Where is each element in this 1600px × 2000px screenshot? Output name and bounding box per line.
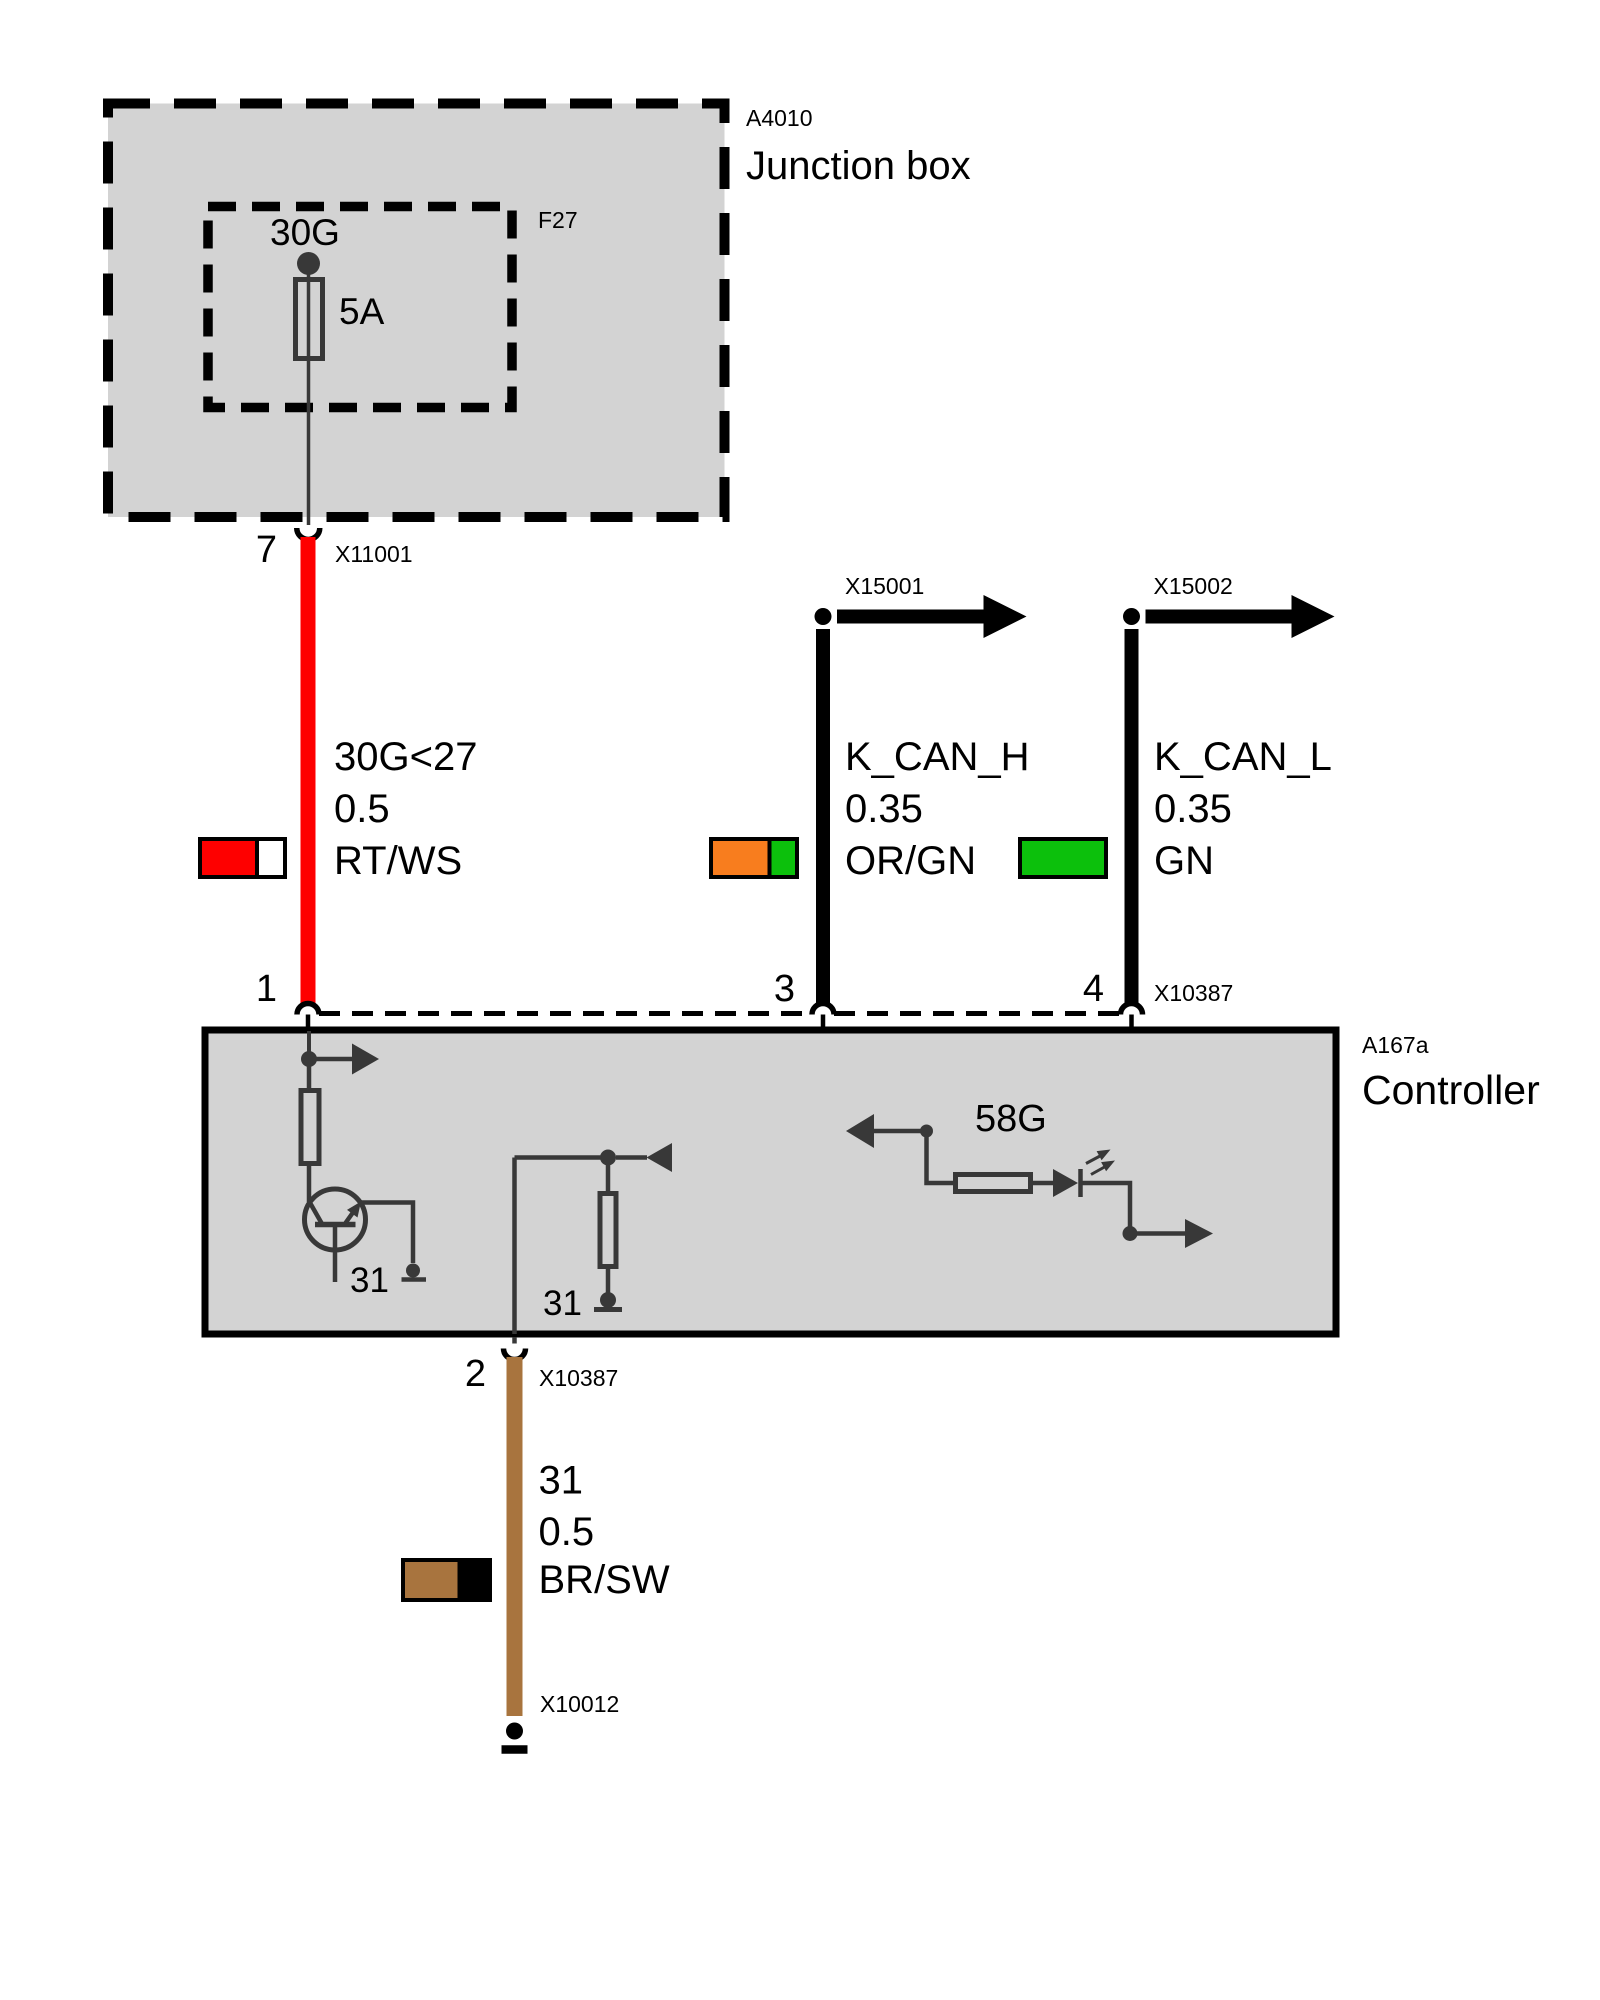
- svg-text:31: 31: [539, 1459, 584, 1503]
- ground X10012 dot: [506, 1723, 523, 1740]
- svg-text:5A: 5A: [339, 291, 385, 332]
- connector X10387 pin 4 socket: [1121, 1004, 1143, 1015]
- resistor R1: [301, 1091, 319, 1164]
- transistor Q1 base bar: [315, 1222, 356, 1228]
- connector X11001 pin 7 socket: [297, 528, 320, 540]
- svg-text:31: 31: [350, 1261, 389, 1300]
- svg-text:1: 1: [256, 968, 277, 1010]
- connector X10387 pin 2 socket: [504, 1349, 526, 1360]
- node junction dot pin1 branch: [301, 1051, 317, 1067]
- svg-text:Junction box: Junction box: [746, 144, 971, 188]
- node X15001 dot: [815, 608, 832, 625]
- arrowhead X15001: [984, 595, 1027, 638]
- node X15002 dot: [1123, 608, 1140, 625]
- colour swatch RT/WS: [200, 839, 285, 877]
- transistor Q1 circle: [305, 1189, 366, 1250]
- svg-text:K_CAN_H: K_CAN_H: [845, 735, 1030, 779]
- wire D1 to output node: [1081, 1183, 1131, 1227]
- transistor Q1 emitter lead down: [333, 1225, 338, 1283]
- node 30G terminal dot: [297, 252, 320, 275]
- pin 4 stub: [1129, 1015, 1134, 1029]
- svg-text:7: 7: [256, 529, 277, 571]
- svg-text:X15002: X15002: [1154, 573, 1233, 599]
- colour swatch GN: [1020, 839, 1106, 877]
- pin 3 stub: [821, 1015, 826, 1029]
- resistor R3: [956, 1175, 1031, 1192]
- svg-text:0.5: 0.5: [539, 1510, 595, 1554]
- wire K_CAN_H vertical: [816, 629, 830, 1003]
- fuse F27 5A: [296, 280, 323, 359]
- wire node to resistor R2: [606, 1158, 611, 1192]
- ground dot at R2: [600, 1292, 616, 1308]
- internal arrow right from pin1 node: [309, 1044, 379, 1075]
- svg-text:X15001: X15001: [845, 573, 924, 599]
- ground bar at Q1: [402, 1277, 427, 1282]
- svg-text:58G: 58G: [975, 1098, 1047, 1140]
- svg-text:F27: F27: [538, 207, 578, 233]
- wire K_CAN_L vertical: [1125, 629, 1139, 1003]
- transistor Q1 emitter diagonal with arrow: [346, 1202, 362, 1224]
- pin 1 stub: [306, 1015, 311, 1029]
- svg-text:3: 3: [774, 968, 795, 1010]
- svg-text:A4010: A4010: [746, 105, 813, 131]
- node junction dot 58G left: [920, 1125, 933, 1138]
- svg-text:A167a: A167a: [1362, 1032, 1429, 1058]
- wire R3 to LED D1: [1031, 1181, 1053, 1186]
- svg-text:4: 4: [1083, 968, 1104, 1010]
- wire X15002 arrow shaft: [1146, 610, 1293, 624]
- wire R1 to transistor Q1: [307, 1164, 312, 1202]
- svg-text:GN: GN: [1154, 839, 1214, 883]
- connector X10387 dashed line segment pins 1-3: [319, 1011, 812, 1016]
- connector X10387 dashed line segment pins 3-4: [834, 1011, 1121, 1016]
- junction box A4010: [108, 104, 725, 518]
- svg-text:0.35: 0.35: [845, 787, 923, 831]
- arrowhead X15002: [1292, 595, 1335, 638]
- svg-text:0.35: 0.35: [1154, 787, 1232, 831]
- wire Q1 to ground: [358, 1203, 413, 1264]
- pin 2 stub below controller: [512, 1337, 517, 1344]
- colour swatch OR/GN: [711, 839, 797, 877]
- wire pin2 vertical inside controller: [512, 1158, 517, 1335]
- connector X10387 pin 3 socket: [812, 1004, 834, 1015]
- svg-text:X11001: X11001: [335, 541, 413, 567]
- ground dot at Q1: [406, 1264, 420, 1278]
- colour swatch BR/SW: [403, 1560, 490, 1600]
- wire 31 brown BR/SW: [507, 1357, 523, 1716]
- internal arrow right 58G output: [1137, 1219, 1213, 1248]
- wire pin1 into controller: [307, 1031, 311, 1059]
- node junction dot R2 top: [600, 1150, 616, 1166]
- svg-text:K_CAN_L: K_CAN_L: [1154, 735, 1332, 779]
- fuse box F27: [208, 207, 512, 408]
- node junction dot 58G output: [1123, 1226, 1138, 1241]
- svg-text:X10387: X10387: [539, 1365, 618, 1391]
- svg-text:30G: 30G: [270, 212, 340, 253]
- wire R2 to ground: [606, 1267, 611, 1293]
- wire X15001 arrow shaft: [837, 610, 984, 624]
- svg-text:30G<27: 30G<27: [334, 735, 477, 779]
- LED D1 light arrow upper: [1086, 1150, 1111, 1164]
- connector X10387 pin 1 socket: [297, 1004, 319, 1015]
- svg-text:RT/WS: RT/WS: [334, 839, 462, 883]
- controller box A167a: [205, 1030, 1336, 1334]
- wire node to resistor R1: [307, 1059, 312, 1088]
- wire from 30G through fuse to pin 7: [307, 264, 311, 525]
- svg-text:Controller: Controller: [1362, 1067, 1540, 1113]
- svg-text:2: 2: [465, 1353, 486, 1395]
- wire pin2 horizontal to node: [515, 1155, 609, 1160]
- ground X10012 bar: [502, 1745, 528, 1754]
- ground bar at R2: [594, 1307, 622, 1312]
- svg-text:X10012: X10012: [540, 1691, 619, 1717]
- svg-text:X10387: X10387: [1154, 980, 1233, 1006]
- internal arrow left 58G: [846, 1114, 921, 1148]
- transistor Q1 collector diagonal: [309, 1201, 322, 1223]
- LED D1 light arrow lower: [1091, 1161, 1115, 1175]
- svg-text:0.5: 0.5: [334, 787, 390, 831]
- wire 58G node to resistor R3: [927, 1131, 954, 1183]
- svg-text:OR/GN: OR/GN: [845, 839, 976, 883]
- wire 30G<27 red RT/WS: [301, 537, 316, 1004]
- internal arrow incoming at R2 node: [616, 1143, 672, 1172]
- LED D1 cathode bar: [1078, 1169, 1083, 1197]
- resistor R2: [600, 1194, 616, 1267]
- LED D1 triangle: [1053, 1169, 1078, 1197]
- svg-text:BR/SW: BR/SW: [539, 1558, 670, 1602]
- svg-text:31: 31: [543, 1284, 582, 1323]
